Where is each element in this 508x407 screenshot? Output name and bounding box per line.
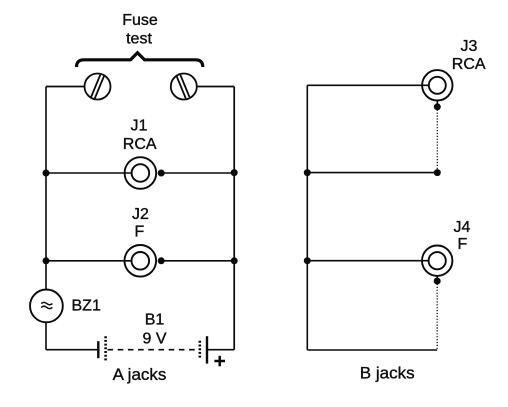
wire: dotted link J3 node down to net [436, 107, 438, 173]
junction dot B right at middle wire [434, 169, 441, 176]
svg-text:test: test [126, 31, 152, 48]
junction dot B left at J4 wire [304, 257, 311, 264]
wire: B circuit left vertical [306, 85, 308, 350]
battery B1 [98, 336, 207, 363]
wire: left rail (A circuit, top section) [45, 87, 47, 290]
wire: B circuit top (left corner to jack J3) [307, 84, 429, 86]
label B1 9V [142, 312, 166, 348]
fuse holder F1 (left) [85, 74, 111, 100]
svg-text:J1: J1 [131, 118, 148, 135]
wire: dotted link J4 node down to bottom wire [436, 281, 438, 350]
wire: bottom left (rail corner to battery) [46, 349, 98, 351]
svg-text:J2: J2 [132, 206, 149, 223]
plus sign at battery positive [214, 356, 225, 367]
svg-text:F: F [135, 224, 145, 241]
node dot right of J2 [158, 257, 165, 264]
jack J1 (RCA) [125, 157, 157, 189]
junction dot left rail at J2 [43, 257, 50, 264]
junction dot left rail at J1 [43, 170, 50, 177]
jack J3 (RCA) [422, 70, 452, 100]
svg-text:RCA: RCA [452, 56, 486, 73]
label J3 RCA [452, 38, 486, 73]
wire: left rail (A circuit, below buzzer) [45, 322, 47, 349]
label J1 RCA [123, 118, 157, 154]
label J4 F [454, 219, 471, 253]
svg-text:A jacks: A jacks [113, 365, 167, 384]
wire: J2 node to right rail [161, 260, 234, 262]
wire: B circuit bottom horizontal [307, 349, 437, 351]
svg-text:9 V: 9 V [142, 331, 166, 348]
junction dot B left at middle wire [304, 169, 311, 176]
buzzer BZ1 [30, 290, 63, 323]
wire: J1 node to right rail [161, 172, 234, 174]
wire: stub below J4 [436, 276, 438, 281]
fuse holder F2 (right) [171, 74, 197, 100]
svg-text:BZ1: BZ1 [72, 298, 101, 315]
svg-text:J3: J3 [461, 38, 478, 55]
wire: left rail to fuse F1 [46, 86, 85, 88]
svg-text:F: F [458, 236, 468, 253]
brace over fuse holders [77, 53, 203, 67]
svg-text:J4: J4 [454, 219, 471, 236]
label "Fuse test" [122, 12, 158, 48]
wire: right rail (A circuit) [233, 87, 235, 350]
wire: battery positive to right rail [207, 349, 234, 351]
label J2 F [132, 206, 149, 241]
junction dot right rail at J1 [231, 169, 238, 176]
jack J4 (F) [422, 246, 452, 276]
wire: B left vertical to jack J4 [307, 260, 428, 262]
svg-text:B1: B1 [145, 312, 165, 329]
wire: stub below J3 [436, 101, 438, 107]
wire: fuse F2 to right rail [197, 86, 234, 88]
node dot below J3 [434, 103, 441, 110]
node dot right of J1 [158, 170, 165, 177]
svg-text:Fuse: Fuse [122, 12, 158, 29]
svg-text:RCA: RCA [123, 136, 157, 153]
svg-text:B jacks: B jacks [360, 364, 415, 383]
junction dot right rail at J2 [231, 257, 238, 264]
wire: left rail to jack J1 [46, 172, 132, 174]
jack J2 (F) [125, 245, 157, 277]
wire: left rail to jack J2 [46, 260, 132, 262]
node dot below J4 [434, 278, 441, 285]
wire: B circuit middle horizontal [307, 172, 437, 174]
